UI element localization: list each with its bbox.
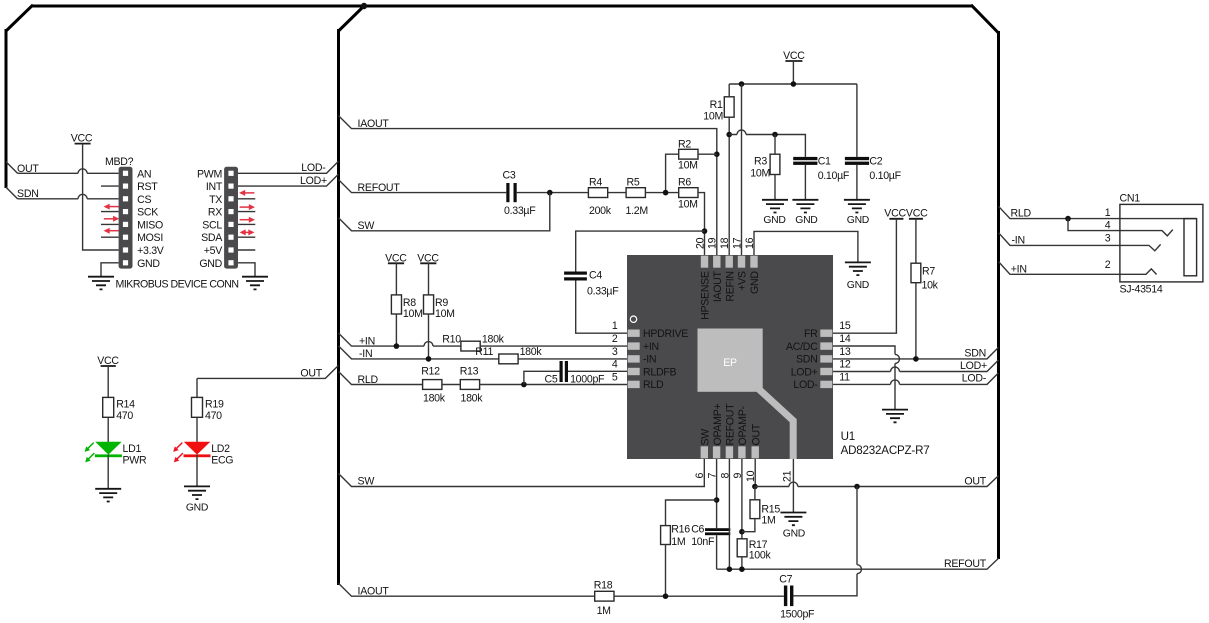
U1 pin names top (rotated) — [700, 270, 762, 319]
svg-text:R1: R1 — [710, 99, 723, 111]
arrow TX left — [239, 190, 254, 196]
resistor R5 — [626, 177, 648, 217]
svg-text:0.10µF: 0.10µF — [869, 170, 901, 182]
svg-text:470: 470 — [205, 410, 222, 422]
VCC symbol (top) — [783, 50, 805, 62]
wire LD1 to ground — [107, 455, 109, 489]
frame inner left edge — [337, 29, 340, 585]
svg-text:+IN: +IN — [643, 341, 659, 353]
svg-text:200k: 200k — [589, 205, 612, 217]
wire pin7 column — [716, 459, 718, 528]
wire RX stub — [238, 211, 255, 213]
svg-text:LOD+: LOD+ — [300, 175, 327, 187]
wire hop LOD+ over pin14 — [891, 367, 900, 372]
resistor R9 — [424, 295, 455, 320]
wire R17 to REFOUT — [741, 557, 743, 569]
wire pin17 column — [741, 84, 743, 256]
wire hop +IN over R9 — [424, 342, 433, 347]
wire pin21 to ground — [792, 459, 794, 513]
VCC symbol (LD1) — [97, 355, 119, 367]
svg-text:4: 4 — [612, 359, 618, 371]
op-amp IC U1 AD8232 body — [627, 255, 833, 459]
label LD1 PWR — [123, 443, 147, 466]
svg-text:CS: CS — [137, 194, 151, 206]
resistor R16 — [661, 523, 691, 548]
node junction R3 — [772, 132, 778, 138]
node junction pin8/REFOUT — [727, 566, 733, 572]
resistor R4 — [588, 177, 611, 217]
svg-text:R10: R10 — [442, 333, 461, 345]
wire rail to C2 — [856, 84, 858, 157]
svg-text:+3.3V: +3.3V — [137, 245, 165, 257]
svg-text:R5: R5 — [627, 177, 640, 189]
svg-text:10nF: 10nF — [691, 536, 715, 548]
U1 pin stubs top — [701, 256, 758, 268]
svg-text:GND: GND — [795, 215, 817, 226]
U1 pin names bottom (rotated) — [700, 403, 763, 446]
U1 pin numbers top (rotated) — [694, 237, 756, 249]
wire +IN from frame — [339, 333, 461, 346]
wire OUT diagonal — [6, 162, 18, 174]
wire TX stub — [238, 198, 255, 200]
wire C3 to R4 — [517, 192, 589, 194]
svg-text:10M: 10M — [678, 199, 698, 211]
wire RLD from frame — [339, 372, 423, 385]
U1 pin numbers right — [839, 320, 851, 383]
svg-text:MISO: MISO — [137, 219, 163, 231]
svg-text:MBD?: MBD? — [105, 156, 134, 168]
resistor R12 — [421, 365, 446, 404]
svg-text:IAOUT: IAOUT — [358, 118, 390, 130]
ground (C1) — [792, 200, 818, 226]
svg-text:3: 3 — [612, 346, 618, 358]
svg-text:RX: RX — [208, 207, 222, 219]
resistor R18 — [594, 580, 614, 617]
svg-text:LOD-: LOD- — [301, 162, 326, 174]
svg-text:SDN: SDN — [796, 354, 817, 366]
connector MBD? header P1 — [119, 167, 133, 269]
svg-text:0.33µF: 0.33µF — [587, 285, 619, 297]
svg-text:0.33µF: 0.33µF — [504, 205, 536, 217]
svg-text:-IN: -IN — [1012, 235, 1025, 247]
wire -IN to CN1 pin3 — [999, 233, 1161, 251]
svg-text:12: 12 — [839, 359, 851, 371]
wire IAOUT bottom from frame — [339, 583, 595, 596]
wire GND (left header) — [101, 263, 119, 277]
svg-text:SW: SW — [358, 475, 375, 487]
svg-text:21: 21 — [781, 470, 793, 482]
svg-text:1.2M: 1.2M — [626, 205, 648, 217]
svg-text:SJ-43514: SJ-43514 — [1120, 284, 1163, 296]
svg-text:GND: GND — [137, 258, 160, 270]
svg-text:GND: GND — [763, 215, 785, 226]
wire VCC to R9 — [428, 263, 430, 295]
ground (pin21) — [780, 513, 806, 540]
LED LD1 — [85, 442, 122, 463]
svg-text:LOD+: LOD+ — [791, 366, 818, 378]
wire RST stub — [101, 185, 119, 187]
wire REFOUT from frame to C3 — [339, 180, 507, 193]
U1 pin stubs bottom — [701, 446, 759, 458]
node junction pin10/R15/OUT — [752, 484, 758, 490]
wire SDA stub — [238, 236, 255, 238]
wire pin7 to R16 — [666, 500, 717, 526]
wire REFOUT bottom — [717, 558, 999, 569]
wire RLD to CN1 pin1 — [999, 206, 1197, 218]
VCC symbol (R8) — [385, 252, 407, 264]
wire MOSI stub — [101, 236, 119, 238]
wire C4 to pin1 — [576, 281, 628, 334]
wire SDN diagonal — [6, 187, 18, 199]
U1 pin numbers bottom (rotated) — [694, 470, 793, 482]
wire MISO stub — [101, 223, 119, 225]
svg-text:R11: R11 — [475, 346, 493, 358]
wire SDN pin13 — [833, 347, 999, 359]
resistor R13 — [460, 365, 484, 404]
wire C1 to ground — [804, 165, 806, 200]
svg-text:100k: 100k — [749, 550, 772, 562]
wire SDN to CS — [18, 198, 119, 200]
wire -IN from frame — [339, 346, 499, 359]
wire VCC to R14 — [107, 366, 109, 397]
svg-text:C7: C7 — [779, 574, 792, 586]
node junction R1/pin18/R3 line — [726, 132, 732, 138]
wire VCC to rail — [792, 61, 794, 84]
svg-text:R18: R18 — [594, 580, 613, 592]
resistor R17 — [737, 539, 771, 562]
svg-text:1M: 1M — [761, 514, 775, 526]
svg-text:RLD: RLD — [1011, 207, 1032, 219]
svg-text:RLDFB: RLDFB — [643, 366, 676, 378]
wire SCL stub — [238, 223, 255, 225]
wire VCC to R7 — [915, 219, 917, 263]
wire VCC to +3.3V pin — [83, 144, 119, 250]
svg-text:-IN: -IN — [643, 354, 656, 366]
svg-text:R6: R6 — [678, 177, 691, 189]
wire C5 branch — [524, 371, 560, 384]
wire R8 to +IN — [395, 314, 397, 346]
svg-text:REFIN: REFIN — [724, 271, 736, 301]
wire pin16 to ground — [754, 231, 858, 262]
svg-text:10k: 10k — [922, 279, 939, 291]
svg-text:U1: U1 — [841, 430, 855, 443]
svg-text:FR: FR — [804, 328, 818, 340]
capacitor C6 — [691, 523, 730, 548]
svg-text:4: 4 — [1105, 219, 1111, 231]
svg-text:INT: INT — [206, 181, 223, 193]
node junction R17/REFOUT — [739, 566, 745, 572]
wire R13 to pin5 — [480, 384, 628, 386]
svg-text:C1: C1 — [818, 156, 831, 168]
VCC symbol (R9) — [417, 252, 439, 264]
wire VCC to pin15 FR — [833, 219, 896, 333]
svg-text:RST: RST — [137, 181, 158, 193]
svg-text:TX: TX — [209, 194, 222, 206]
svg-text:GND: GND — [749, 271, 761, 294]
node junction R9/-IN — [426, 356, 432, 362]
svg-text:SDA: SDA — [201, 232, 223, 244]
node junction pin7/R16 — [714, 497, 720, 503]
wire LOD- pin11 — [833, 373, 999, 385]
U1 pin names right — [786, 328, 818, 391]
svg-text:C2: C2 — [869, 156, 882, 168]
svg-text:VCCVCC: VCCVCC — [884, 208, 928, 220]
svg-text:OUT: OUT — [964, 476, 986, 488]
svg-text:OUT: OUT — [300, 367, 322, 379]
svg-text:1M: 1M — [597, 605, 611, 617]
U1 pin names left — [643, 328, 688, 391]
svg-text:-IN: -IN — [359, 348, 372, 360]
svg-text:AN: AN — [137, 168, 151, 180]
U1 exposed pad EP — [698, 329, 763, 392]
svg-text:180k: 180k — [482, 333, 505, 345]
frame outer top edge — [32, 5, 972, 8]
svg-text:GND: GND — [847, 215, 869, 226]
wire hop C7 over REFOUT — [857, 565, 862, 574]
svg-text:OPAMP-: OPAMP- — [737, 406, 749, 446]
svg-text:R7: R7 — [922, 265, 935, 277]
resistor R1 — [703, 97, 734, 123]
svg-text:R4: R4 — [589, 177, 602, 189]
wire pin10 to OUT — [754, 459, 756, 487]
resistor R7 — [911, 263, 939, 291]
wire pin9 column — [741, 459, 743, 539]
wire R14 to LD1 — [107, 417, 109, 442]
svg-text:R13: R13 — [460, 365, 479, 377]
svg-text:SW: SW — [358, 220, 375, 232]
svg-text:20: 20 — [694, 237, 706, 249]
ground (LD2) — [184, 486, 210, 513]
capacitor C4 — [564, 270, 619, 298]
frame top-right chamfer — [971, 5, 999, 33]
svg-text:10M: 10M — [403, 308, 423, 320]
wire R5 to R6 — [645, 192, 678, 194]
wire to CN1 pin4 — [1068, 219, 1173, 236]
wire GND (right header) — [238, 263, 255, 277]
svg-text:+5V: +5V — [204, 245, 223, 257]
svg-text:REFOUT: REFOUT — [725, 403, 737, 446]
ground (LD1) — [95, 489, 121, 502]
node junction C5/RLD — [521, 382, 527, 388]
wire OUT bottom — [755, 476, 999, 487]
capacitor C7 — [779, 574, 815, 621]
node junction rail/pin17 — [739, 81, 745, 87]
svg-text:PWM: PWM — [197, 168, 222, 180]
wire hop OUT over pin21 — [789, 482, 798, 486]
wire SW bottom from frame to pin6 — [339, 459, 705, 487]
svg-text:19: 19 — [707, 237, 719, 249]
connector CN1 jack body — [1120, 204, 1203, 282]
svg-text:R12: R12 — [421, 365, 440, 377]
svg-text:LOD+: LOD+ — [960, 360, 987, 372]
svg-text:470: 470 — [116, 410, 133, 422]
node frame junction — [361, 3, 367, 9]
svg-text:LD2: LD2 — [211, 443, 230, 455]
wire R12 to R13 — [442, 384, 460, 386]
svg-text:R14: R14 — [116, 399, 135, 411]
node junction R8/+IN — [394, 343, 400, 349]
wire R3 to ground — [774, 175, 776, 200]
wire +IN to CN1 pin2 — [999, 262, 1157, 275]
svg-text:OUT: OUT — [750, 423, 762, 445]
svg-text:180k: 180k — [423, 393, 446, 405]
wire R1 to pin18 — [728, 117, 730, 256]
wire OUT net to R19 — [197, 365, 339, 397]
node junction R2 right — [714, 151, 720, 157]
wire R11 to pin3 — [518, 358, 628, 360]
arrow SCL right — [240, 217, 255, 223]
svg-text:MIKROBUS DEVICE CONN: MIKROBUS DEVICE CONN — [116, 279, 239, 291]
svg-text:R16: R16 — [671, 523, 690, 535]
svg-text:R9: R9 — [435, 297, 448, 309]
wire rail to R1 — [728, 84, 730, 97]
svg-text:RLD: RLD — [358, 374, 379, 386]
resistor R19 — [192, 397, 224, 422]
svg-text:13: 13 — [839, 346, 851, 358]
wire hop SDN over VCC — [78, 194, 87, 198]
arrow MISO right — [104, 216, 119, 222]
capacitor C2 — [845, 156, 902, 182]
svg-text:LOD-: LOD- — [962, 373, 987, 385]
svg-text:GND: GND — [847, 280, 869, 291]
svg-text:10M: 10M — [750, 167, 770, 179]
ground (right header) — [242, 277, 268, 290]
U1 pin numbers left — [612, 320, 618, 383]
wire PWM to LOD- — [238, 161, 339, 173]
wire R15 to pin9 — [742, 519, 755, 532]
svg-text:CN1: CN1 — [1120, 193, 1141, 205]
svg-text:SCK: SCK — [137, 207, 158, 219]
pin labels P2 — [197, 168, 223, 269]
svg-text:C6: C6 — [691, 523, 704, 535]
svg-text:1000pF: 1000pF — [570, 374, 605, 386]
ground (pin14) — [882, 410, 908, 423]
frame right edge — [997, 31, 1000, 559]
node junction R7/SDN — [913, 356, 919, 362]
svg-text:LD1: LD1 — [123, 443, 142, 455]
svg-text:10M: 10M — [703, 110, 723, 122]
U1 reference label — [841, 430, 930, 457]
svg-text:1500pF: 1500pF — [780, 608, 815, 620]
node junction OUT/C7 — [854, 484, 860, 490]
svg-text:16: 16 — [744, 237, 756, 249]
label LD2 ECG — [211, 443, 233, 466]
wire R19 to LD2 — [196, 417, 198, 442]
svg-text:1M: 1M — [671, 536, 685, 548]
svg-text:C5: C5 — [545, 374, 558, 386]
wire VCC to R8 — [395, 263, 397, 295]
arrow RX right — [240, 204, 255, 210]
wire C6 to REFOUT — [716, 535, 718, 569]
arrow MOSI left — [104, 228, 119, 234]
svg-text:AC/DC: AC/DC — [786, 341, 818, 353]
wire C2 to ground — [856, 165, 858, 200]
node junction R16/IAOUT — [663, 593, 669, 599]
connector header P2 — [224, 167, 238, 269]
wire R15 top — [754, 487, 756, 500]
node junction RLD/pin4 — [1065, 216, 1071, 222]
wire R3 top — [774, 135, 776, 155]
svg-text:R19: R19 — [205, 399, 224, 411]
svg-text:AD8232ACPZ-R7: AD8232ACPZ-R7 — [841, 444, 930, 457]
svg-text:C4: C4 — [589, 270, 602, 282]
wire +5V stub — [238, 249, 255, 251]
svg-text:+IN: +IN — [359, 335, 375, 347]
wire hop LOD- over pin14 — [891, 380, 900, 385]
node junction rail/VCC — [791, 81, 797, 87]
LED LD2 — [173, 442, 210, 463]
svg-text:HPSENSE: HPSENSE — [700, 271, 712, 320]
node junction R2/R5/R6 — [663, 190, 669, 196]
VCC symbol (mikrobus) — [71, 133, 93, 145]
resistor R6 — [678, 177, 698, 211]
wire R10 to pin2 — [480, 345, 628, 347]
resistor R8 — [391, 295, 422, 320]
svg-text:15: 15 — [839, 320, 851, 332]
resistor R10 — [442, 333, 504, 351]
svg-text:1: 1 — [612, 320, 618, 332]
svg-text:R3: R3 — [754, 156, 767, 168]
svg-text:5: 5 — [612, 371, 618, 383]
ground (C2) — [844, 200, 870, 226]
svg-text:17: 17 — [731, 237, 743, 249]
node junction SW/C3/R4 — [547, 190, 553, 196]
EP trace to pin21 — [756, 387, 793, 460]
U1 pin stubs right — [820, 330, 832, 389]
wire hop pin14 over SDN — [895, 354, 900, 363]
svg-text:14: 14 — [839, 333, 851, 345]
wire SW from frame — [339, 193, 550, 231]
resistor R2 — [678, 138, 698, 171]
svg-text:1: 1 — [1105, 207, 1111, 219]
capacitor C1 — [793, 156, 850, 182]
svg-text:HPDRIVE: HPDRIVE — [643, 328, 688, 340]
wire R2 right — [698, 153, 717, 155]
svg-text:IAOUT: IAOUT — [358, 586, 390, 598]
svg-text:+VS: +VS — [737, 271, 749, 291]
svg-text:EP: EP — [723, 357, 737, 369]
node junction pin9/R15 — [739, 529, 745, 535]
ground (pin16) — [845, 262, 871, 291]
wire pin8 column — [728, 459, 730, 569]
VCC symbol pair (right) — [884, 208, 928, 220]
capacitor C3 — [503, 170, 537, 217]
resistor R15 — [750, 500, 780, 527]
wire R4 to R5 — [608, 192, 626, 194]
frame outer left edge — [5, 29, 8, 188]
CN1 sleeve bar — [1184, 219, 1197, 276]
frame outer top-left chamfer — [6, 5, 33, 31]
svg-text:10M: 10M — [678, 160, 698, 172]
wire pin14 to ground with hop — [833, 346, 895, 410]
svg-text:SW: SW — [700, 429, 712, 446]
arrow SCK left — [104, 204, 119, 210]
svg-text:180k: 180k — [520, 346, 543, 358]
svg-text:SCL: SCL — [202, 219, 222, 231]
svg-text:11: 11 — [839, 371, 850, 383]
svg-text:2: 2 — [1105, 259, 1111, 271]
svg-text:GND: GND — [783, 528, 805, 539]
svg-text:VCC: VCC — [97, 355, 119, 367]
svg-text:10M: 10M — [435, 308, 455, 320]
svg-text:PWR: PWR — [123, 454, 147, 466]
svg-text:3: 3 — [1105, 232, 1111, 244]
frame inner top-left diagonal — [339, 5, 366, 31]
wire pin18 node to C1 (hop over pin17) — [729, 135, 805, 157]
svg-text:0.10µF: 0.10µF — [818, 170, 850, 182]
CN1 pin numbers — [1105, 207, 1111, 271]
wire hop OUT over VCC — [78, 169, 87, 174]
